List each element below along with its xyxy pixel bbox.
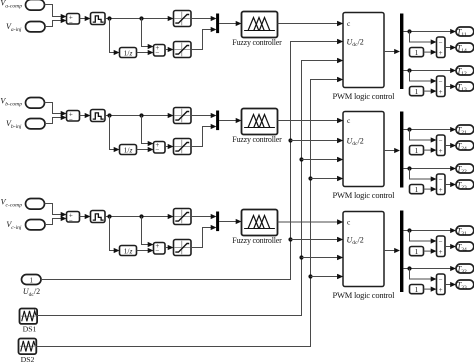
- arrow: [431, 50, 437, 55]
- junction node: [407, 166, 411, 170]
- arrow: [431, 238, 437, 243]
- wire fuzzy to PWM: [278, 23, 338, 25]
- wire V_b-comp to sum: [45, 103, 62, 114]
- wire DS2 to PWM2: [311, 178, 338, 180]
- wire demux to output: [403, 268, 450, 270]
- wire junction to sum minus input: [410, 32, 432, 43]
- arrow: [431, 39, 437, 44]
- junction node: [107, 16, 111, 20]
- svg-text:DS1: DS1: [23, 325, 37, 334]
- input port U_dc/2: [22, 275, 42, 285]
- PWM logic control block U2: [343, 112, 384, 187]
- saturation block Sat32: [174, 240, 192, 256]
- arrow: [168, 144, 174, 149]
- sum block Sum32: [154, 243, 166, 255]
- arrow: [431, 137, 437, 142]
- svg-text:+: +: [439, 248, 443, 256]
- arrow: [431, 78, 437, 83]
- svg-text:+: +: [439, 147, 443, 155]
- wire sum to output: [445, 246, 451, 248]
- wire V_a-inj to sum: [45, 21, 62, 27]
- sum block (T22/T23): [437, 174, 446, 195]
- arrow: [337, 274, 343, 279]
- constant block 1 (T33): [410, 285, 424, 294]
- output port T34: [456, 242, 474, 251]
- arrow: [114, 50, 120, 55]
- arrow: [61, 18, 67, 23]
- arrow: [211, 113, 217, 118]
- wire sum to saturation: [165, 49, 168, 51]
- arrow: [431, 287, 437, 292]
- unit delay block 1/z (c): [120, 246, 137, 256]
- demux bar Demux3: [400, 211, 403, 293]
- saturation block Sat31: [174, 209, 192, 225]
- arrow: [61, 212, 67, 217]
- input port V_b-comp: [26, 98, 45, 109]
- junction node: [407, 29, 411, 33]
- demux bar Demux1: [400, 14, 403, 90]
- arrow: [337, 39, 343, 44]
- svg-text:DS2: DS2: [21, 355, 35, 363]
- junction node DS2: [308, 274, 312, 278]
- arrow: [450, 84, 456, 89]
- arrow: [148, 44, 154, 49]
- arrow: [450, 127, 456, 132]
- wire junction down to sum: [142, 19, 149, 47]
- svg-text:PWM logic control: PWM logic control: [333, 290, 396, 300]
- arrow: [337, 39, 343, 44]
- PWM logic control block U1: [343, 13, 384, 88]
- wire junction down to sum: [142, 217, 149, 245]
- wire saturation to mux: [191, 18, 211, 20]
- unit delay block 1/z (b): [120, 145, 137, 155]
- sum block Sum31: [67, 212, 80, 223]
- output port T23: [456, 180, 474, 189]
- svg-text:1/z: 1/z: [124, 246, 133, 255]
- output port T22: [456, 164, 474, 173]
- arrow: [236, 21, 242, 26]
- sum block (T12/T13): [437, 76, 446, 97]
- arrow: [337, 157, 343, 162]
- wire mux to fuzzy: [219, 120, 236, 122]
- wire sum to output: [445, 86, 451, 88]
- wire U_dc/2 riser to PWM1: [41, 42, 338, 280]
- sum block Sum11: [67, 14, 80, 25]
- arrow: [450, 166, 456, 171]
- arrow: [450, 143, 456, 148]
- fuzzy controller block (a): [242, 12, 278, 38]
- wire V_b-inj to sum: [45, 118, 62, 124]
- output port T13: [456, 82, 474, 91]
- svg-text:1: 1: [415, 247, 419, 256]
- arrow: [450, 282, 456, 287]
- arrow: [431, 148, 437, 153]
- svg-text:PWM logic control: PWM logic control: [333, 91, 396, 101]
- arrow: [394, 248, 400, 253]
- wire junction down to sum: [142, 116, 149, 144]
- input port V_c-inj: [26, 220, 46, 230]
- junction node DS2: [308, 176, 312, 180]
- junction node: [407, 228, 411, 232]
- wire PWM to demux: [384, 150, 395, 152]
- constant block 1 (T13): [410, 87, 424, 96]
- arrow: [337, 274, 343, 279]
- arrow: [148, 50, 154, 55]
- wire V_a-comp to sum: [45, 5, 62, 17]
- arrow: [431, 176, 437, 181]
- wire ZOH to saturation: [105, 18, 168, 20]
- wire sum to saturation: [165, 247, 168, 249]
- sum block (T11/T14): [437, 37, 446, 58]
- svg-text:+: +: [439, 49, 443, 57]
- arrow: [211, 27, 217, 32]
- svg-text:−: −: [69, 18, 73, 26]
- input port V_b-inj: [26, 119, 46, 129]
- svg-text:−: −: [69, 216, 73, 224]
- wire junction to sum minus input: [410, 169, 432, 180]
- svg-text:−: −: [439, 78, 443, 86]
- arrow: [85, 113, 91, 118]
- wire sum to output: [445, 284, 451, 286]
- svg-text:+: +: [439, 186, 443, 194]
- wire ZOH to saturation: [105, 115, 168, 117]
- arrow: [431, 249, 437, 254]
- saturation block Sat11: [174, 11, 192, 27]
- arrow: [337, 118, 343, 123]
- wire saturation to mux: [191, 115, 211, 117]
- svg-text:−: −: [439, 137, 443, 145]
- junction node: [407, 127, 411, 131]
- arrow: [450, 182, 456, 187]
- arrow: [168, 47, 174, 52]
- arrow: [337, 237, 343, 242]
- arrow: [337, 138, 343, 143]
- arrow: [337, 176, 343, 181]
- wire DS1 to PWM2: [302, 159, 338, 161]
- wire fuzzy to PWM: [278, 120, 338, 122]
- svg-text:−: −: [439, 176, 443, 184]
- wire sum to output: [445, 145, 451, 147]
- demux bar Demux2: [400, 112, 403, 188]
- wire PWM to demux: [384, 51, 395, 53]
- arrow: [337, 219, 343, 224]
- wire saturation to mux: [191, 216, 211, 218]
- arrow: [85, 214, 91, 219]
- arrow: [114, 248, 120, 253]
- wire constant to sum plus input: [424, 90, 432, 92]
- junction node DS1: [299, 157, 303, 161]
- svg-text:1: 1: [415, 48, 419, 57]
- arrow: [337, 21, 343, 26]
- svg-text:+: +: [439, 88, 443, 96]
- wire sum to output: [445, 47, 451, 49]
- arrow: [431, 187, 437, 192]
- wire junction down to unit delay: [110, 217, 115, 251]
- mux bar Mux1: [216, 14, 219, 34]
- wire constant to sum plus input: [424, 149, 432, 151]
- junction node U_dc/2: [288, 138, 292, 142]
- arrow: [61, 115, 67, 120]
- wire 1/z to sum: [137, 250, 149, 252]
- arrow: [236, 219, 242, 224]
- mux bar Mux2: [216, 111, 219, 131]
- wire saturation to mux lower: [191, 127, 211, 147]
- zero-order-hold block ZOH3: [91, 211, 106, 223]
- svg-text:−: −: [155, 146, 159, 154]
- input port V_c-comp: [26, 199, 45, 210]
- arrow: [450, 228, 456, 233]
- arrow: [431, 276, 437, 281]
- wire DS2 riser to PWM1: [36, 80, 337, 347]
- arrow: [211, 225, 217, 230]
- arrow: [148, 141, 154, 146]
- arrow: [211, 214, 217, 219]
- arrow: [450, 244, 456, 249]
- wire sum to ZOH: [80, 115, 86, 117]
- wire saturation to mux lower: [191, 30, 211, 50]
- arrow: [394, 49, 400, 54]
- svg-text:Fuzzy controller: Fuzzy controller: [232, 236, 282, 245]
- wire demux to output: [403, 230, 450, 232]
- wire constant to sum plus input: [424, 51, 432, 53]
- arrow: [337, 58, 343, 63]
- wire DS1 riser to PWM1: [37, 61, 337, 316]
- wire sum to saturation: [165, 146, 168, 148]
- arrow: [211, 124, 217, 129]
- svg-text:−: −: [439, 276, 443, 284]
- svg-text:+: +: [439, 286, 443, 294]
- wire U_dc/2 to PWM2: [291, 140, 338, 142]
- input port V_a-comp: [26, 0, 45, 10]
- arrow: [114, 147, 120, 152]
- wire junction to sum minus input: [410, 231, 432, 242]
- svg-text:1: 1: [415, 185, 419, 194]
- constant block 1 (T24): [410, 146, 424, 155]
- arrow: [148, 147, 154, 152]
- wire 1/z to sum: [137, 52, 149, 54]
- output port T32: [456, 264, 474, 273]
- arrow: [337, 237, 343, 242]
- wire constant to sum plus input: [424, 188, 432, 190]
- wire sum to ZOH: [80, 18, 86, 20]
- svg-text:1/z: 1/z: [124, 48, 133, 57]
- sum block (T31/T34): [437, 236, 446, 257]
- junction node DS1: [299, 255, 303, 259]
- arrow: [337, 58, 343, 63]
- arrow: [85, 16, 91, 21]
- wire PWM to demux: [384, 250, 395, 252]
- output port T24: [456, 141, 474, 150]
- arrow: [168, 16, 174, 21]
- sum block Sum12: [154, 45, 166, 57]
- PWM logic control block U3: [343, 212, 384, 287]
- junction node: [407, 68, 411, 72]
- svg-text:−: −: [69, 115, 73, 123]
- wire DS2 to PWM3: [311, 276, 338, 278]
- arrow: [450, 68, 456, 73]
- wire mux to fuzzy: [219, 23, 236, 25]
- junction node: [407, 266, 411, 270]
- arrow: [236, 118, 242, 123]
- signal generator block DS1: [20, 309, 38, 324]
- svg-text:1: 1: [415, 285, 419, 294]
- wire 1/z to sum: [137, 149, 149, 151]
- fuzzy controller block (c): [242, 210, 278, 236]
- junction node: [107, 214, 111, 218]
- arrow: [394, 148, 400, 153]
- sum block Sum22: [154, 142, 166, 154]
- zero-order-hold block ZOH2: [91, 110, 106, 122]
- junction node U_dc/2: [288, 237, 292, 241]
- arrow: [61, 111, 67, 116]
- output port T14: [456, 43, 474, 52]
- arrow: [337, 255, 343, 260]
- wire U_dc/2 to PWM3: [291, 239, 338, 241]
- wire constant to sum plus input: [424, 250, 432, 252]
- saturation block Sat22: [174, 139, 192, 155]
- wire junction down to unit delay: [110, 19, 115, 53]
- sum block Sum21: [67, 111, 80, 122]
- arrow: [337, 138, 343, 143]
- arrow: [168, 245, 174, 250]
- junction node: [139, 214, 143, 218]
- fuzzy controller block (b): [242, 109, 278, 135]
- wire junction to sum minus input: [410, 130, 432, 141]
- arrow: [337, 219, 343, 224]
- svg-text:1: 1: [415, 146, 419, 155]
- signal generator block DS2: [19, 339, 37, 355]
- svg-text:Fuzzy controller: Fuzzy controller: [232, 135, 282, 144]
- arrow: [168, 113, 174, 118]
- output port T33: [456, 280, 474, 289]
- wire V_c-comp to sum: [45, 204, 62, 215]
- svg-text:−: −: [439, 238, 443, 246]
- svg-text:−: −: [439, 39, 443, 47]
- saturation block Sat12: [174, 42, 192, 58]
- svg-text:1: 1: [30, 277, 34, 285]
- wire junction to sum minus input: [410, 71, 432, 82]
- wire fuzzy to PWM: [278, 221, 338, 223]
- wire demux to output: [403, 129, 450, 131]
- arrow: [337, 77, 343, 82]
- svg-text:−: −: [155, 49, 159, 57]
- arrow: [337, 176, 343, 181]
- svg-text:Fuzzy controller: Fuzzy controller: [232, 38, 282, 47]
- arrow: [148, 248, 154, 253]
- arrow: [337, 21, 343, 26]
- unit delay block 1/z (a): [120, 48, 137, 58]
- svg-text:PWM logic control: PWM logic control: [333, 190, 396, 200]
- arrow: [450, 266, 456, 271]
- wire V_c-inj to sum: [45, 219, 62, 225]
- constant block 1 (T23): [410, 185, 424, 194]
- arrow: [337, 157, 343, 162]
- wire constant to sum plus input: [424, 288, 432, 290]
- wire DS1 to PWM3: [302, 257, 338, 259]
- sum block (T32/T33): [437, 274, 446, 295]
- constant block 1 (T34): [410, 247, 424, 256]
- output port T11: [456, 27, 474, 36]
- arrow: [61, 14, 67, 19]
- mux bar Mux3: [216, 212, 219, 232]
- wire sum to ZOH: [80, 216, 86, 218]
- input port V_a-inj: [26, 22, 46, 32]
- output port T31: [456, 226, 474, 235]
- arrow: [337, 118, 343, 123]
- wire junction to sum minus input: [410, 269, 432, 280]
- arrow: [337, 255, 343, 260]
- wire demux to output: [403, 70, 450, 72]
- sum block (T21/T24): [437, 135, 446, 156]
- arrow: [211, 16, 217, 21]
- arrow: [450, 45, 456, 50]
- wire ZOH to saturation: [105, 216, 168, 218]
- svg-text:1: 1: [415, 87, 419, 96]
- junction node: [139, 16, 143, 20]
- arrow: [61, 216, 67, 221]
- output port T21: [456, 125, 474, 134]
- wire demux to output: [403, 168, 450, 170]
- junction node: [139, 113, 143, 117]
- arrow: [431, 89, 437, 94]
- zero-order-hold block ZOH1: [91, 13, 106, 25]
- junction node: [107, 113, 111, 117]
- arrow: [168, 214, 174, 219]
- arrow: [337, 77, 343, 82]
- wire mux to fuzzy: [219, 221, 236, 223]
- svg-text:−: −: [155, 247, 159, 255]
- arrow: [450, 29, 456, 34]
- wire saturation to mux lower: [191, 228, 211, 248]
- wire demux to output: [403, 31, 450, 33]
- saturation block Sat21: [174, 108, 192, 124]
- output port T12: [456, 66, 474, 75]
- constant block 1 (T14): [410, 48, 424, 57]
- arrow: [148, 242, 154, 247]
- wire sum to output: [445, 184, 451, 186]
- svg-text:1/z: 1/z: [124, 145, 133, 154]
- wire junction down to unit delay: [110, 116, 115, 150]
